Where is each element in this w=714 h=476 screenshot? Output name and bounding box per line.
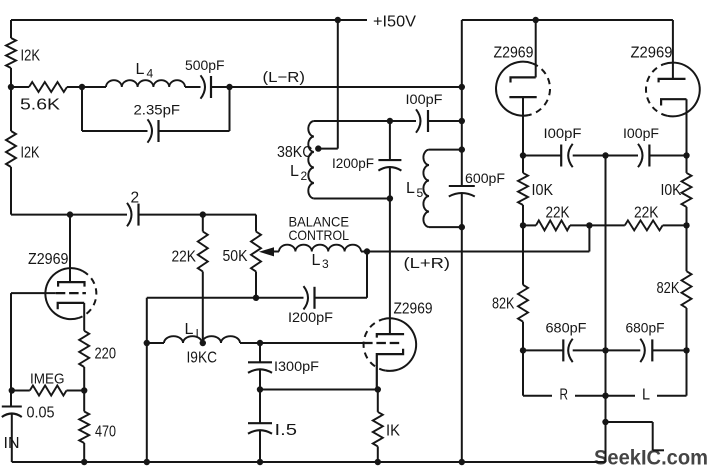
svg-text:L: L — [136, 61, 145, 78]
svg-text:5: 5 — [417, 186, 424, 200]
svg-text:22K: 22K — [546, 205, 571, 222]
svg-text:82K: 82K — [492, 296, 515, 313]
svg-text:R: R — [560, 387, 569, 404]
svg-text:0.05: 0.05 — [27, 405, 55, 422]
svg-text:2: 2 — [131, 190, 140, 207]
svg-text:I9KC: I9KC — [187, 350, 218, 367]
svg-text:600pF: 600pF — [465, 171, 505, 186]
svg-text:I0K: I0K — [532, 182, 554, 199]
svg-text:(L−R): (L−R) — [263, 69, 306, 86]
svg-text:I00pF: I00pF — [406, 92, 443, 107]
svg-text:IMEG: IMEG — [30, 372, 65, 388]
svg-text:L: L — [406, 180, 415, 197]
svg-text:I: I — [196, 327, 199, 341]
svg-text:L: L — [290, 163, 299, 180]
svg-text:(L+R): (L+R) — [404, 255, 451, 272]
svg-text:22K: 22K — [172, 249, 197, 266]
svg-text:5.6K: 5.6K — [20, 97, 60, 114]
svg-text:I00pF: I00pF — [623, 126, 659, 141]
svg-text:I.5: I.5 — [275, 422, 298, 439]
svg-text:I200pF: I200pF — [288, 310, 333, 325]
svg-text:680pF: 680pF — [626, 321, 665, 336]
svg-text:82K: 82K — [657, 280, 681, 297]
svg-text:I00pF: I00pF — [544, 126, 582, 141]
svg-text:Z2969: Z2969 — [28, 251, 69, 268]
svg-text:I200pF: I200pF — [332, 156, 374, 171]
svg-text:+I50V: +I50V — [373, 14, 417, 31]
svg-text:SeekIC.com: SeekIC.com — [594, 447, 708, 470]
svg-text:50K: 50K — [223, 248, 249, 265]
svg-text:Z2969: Z2969 — [394, 301, 433, 318]
svg-text:CONTROL: CONTROL — [289, 227, 350, 243]
svg-text:I0K: I0K — [661, 182, 683, 199]
svg-text:38KC: 38KC — [277, 144, 313, 161]
svg-text:2: 2 — [301, 169, 308, 183]
svg-text:I2K: I2K — [21, 48, 41, 65]
svg-text:680pF: 680pF — [546, 321, 587, 336]
svg-text:IN: IN — [4, 435, 20, 452]
svg-text:220: 220 — [95, 346, 117, 363]
svg-text:500pF: 500pF — [185, 58, 225, 73]
svg-text:2.35pF: 2.35pF — [134, 103, 181, 118]
svg-text:22K: 22K — [634, 205, 659, 222]
svg-text:I300pF: I300pF — [274, 359, 319, 374]
svg-text:4: 4 — [147, 67, 154, 81]
svg-text:3: 3 — [322, 257, 329, 271]
svg-text:L: L — [185, 321, 194, 338]
svg-text:L: L — [642, 387, 650, 404]
svg-text:470: 470 — [95, 424, 116, 441]
svg-text:I2K: I2K — [21, 145, 40, 162]
svg-text:IK: IK — [386, 423, 401, 440]
svg-text:L: L — [312, 252, 321, 269]
svg-text:Z2969: Z2969 — [494, 45, 534, 62]
svg-text:Z2969: Z2969 — [631, 45, 673, 62]
